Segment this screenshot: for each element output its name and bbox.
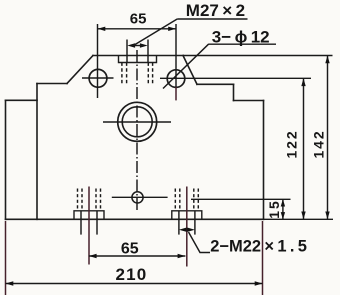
hole phi12 right — [167, 70, 185, 88]
M27 thread dashed hidden lines — [122, 63, 153, 84]
left flange edge — [5, 100, 7, 219]
big circle horizontal centerline — [103, 121, 171, 123]
M22 left centerline (maroon) — [88, 187, 90, 265]
hole phi12 left horizontal centerline — [82, 77, 114, 79]
hole phi12 left — [89, 69, 107, 87]
body right chamfer — [183, 56, 197, 85]
small hole bottom center — [132, 192, 143, 203]
body left chamfer — [67, 56, 93, 84]
dimension 65 top: extension done above; dimension line — [98, 28, 177, 30]
label 2-M22x1.5 leader — [189, 232, 211, 253]
body right edge — [263, 101, 265, 220]
M22 dimension arrows — [179, 228, 195, 232]
body top edge — [93, 55, 183, 57]
left extension line for 210 (maroon) — [5, 221, 7, 295]
hole phi12 right horizontal centerline / 122 extension — [160, 77, 311, 79]
M22 boss left — [74, 211, 104, 220]
body left edge — [36, 84, 38, 220]
M22 boss right — [172, 211, 202, 220]
main port bore (big double circle) outer — [118, 102, 157, 141]
body base line — [6, 218, 264, 220]
65 top arrows — [98, 27, 177, 31]
body left shoulder — [37, 83, 67, 85]
122 arrows — [301, 78, 305, 219]
210 arrows — [6, 281, 263, 285]
M22 left hole lines — [80, 211, 82, 235]
dimension 142 line — [327, 56, 329, 220]
M27 thread extension line right — [147, 40, 149, 63]
main port bore inner circle — [122, 107, 152, 137]
15 arrows — [281, 199, 285, 219]
65 bottom arrows — [89, 254, 186, 258]
svg-text:M27 × 2: M27 × 2 — [186, 1, 245, 20]
svg-text:210: 210 — [116, 265, 148, 284]
dimension 15 line — [282, 199, 284, 219]
M27 dimension arrows — [127, 43, 147, 47]
142 arrows — [325, 56, 329, 220]
M27 label underline — [177, 18, 247, 20]
body right shoulder — [197, 83, 234, 85]
M22 left dashed thread lines — [78, 189, 101, 211]
base extension line to right dims — [264, 218, 334, 220]
M22 right dashed thread lines — [175, 189, 198, 211]
M22 right hole lines — [178, 211, 180, 235]
3-phi12 underline — [208, 43, 276, 45]
M27 dimension line between arrows — [132, 45, 143, 47]
right extension line for 210 (maroon) — [262, 221, 264, 295]
svg-text:142: 142 — [310, 129, 326, 158]
svg-text:2−M22 × 1 . 5: 2−M22 × 1 . 5 — [210, 238, 307, 256]
hole phi12 left vertical centerline / 65 extension — [97, 24, 99, 98]
M27 boss flange — [119, 56, 157, 63]
left flange top — [6, 99, 38, 101]
M27 thread extension line left — [126, 40, 128, 63]
extension line for 15 dim (from small hole level) — [191, 198, 291, 200]
body right step horizontal — [234, 100, 264, 102]
svg-text:65: 65 — [121, 240, 139, 257]
svg-text:15: 15 — [266, 199, 282, 218]
hole phi12 right vertical centerline lower (maroon) — [175, 87, 177, 100]
hole phi12 right vertical centerline upper / 65 extension — [175, 24, 177, 87]
dimension 210 line — [6, 283, 263, 285]
M27 leader line — [133, 19, 177, 46]
dimension 65 bottom line — [89, 255, 186, 257]
svg-text:65: 65 — [130, 10, 147, 27]
small hole horizontal centerline — [112, 196, 168, 198]
top edge extension line to 142 dim — [183, 55, 333, 57]
svg-text:122: 122 — [284, 129, 300, 158]
body right step vertical — [233, 84, 235, 100]
main vertical centerline (dash-dot) — [136, 50, 138, 212]
M22 right centerline (maroon) — [186, 187, 188, 267]
3-phi12 leader line through right hole — [163, 44, 209, 88]
dimension 122 line — [303, 78, 305, 219]
